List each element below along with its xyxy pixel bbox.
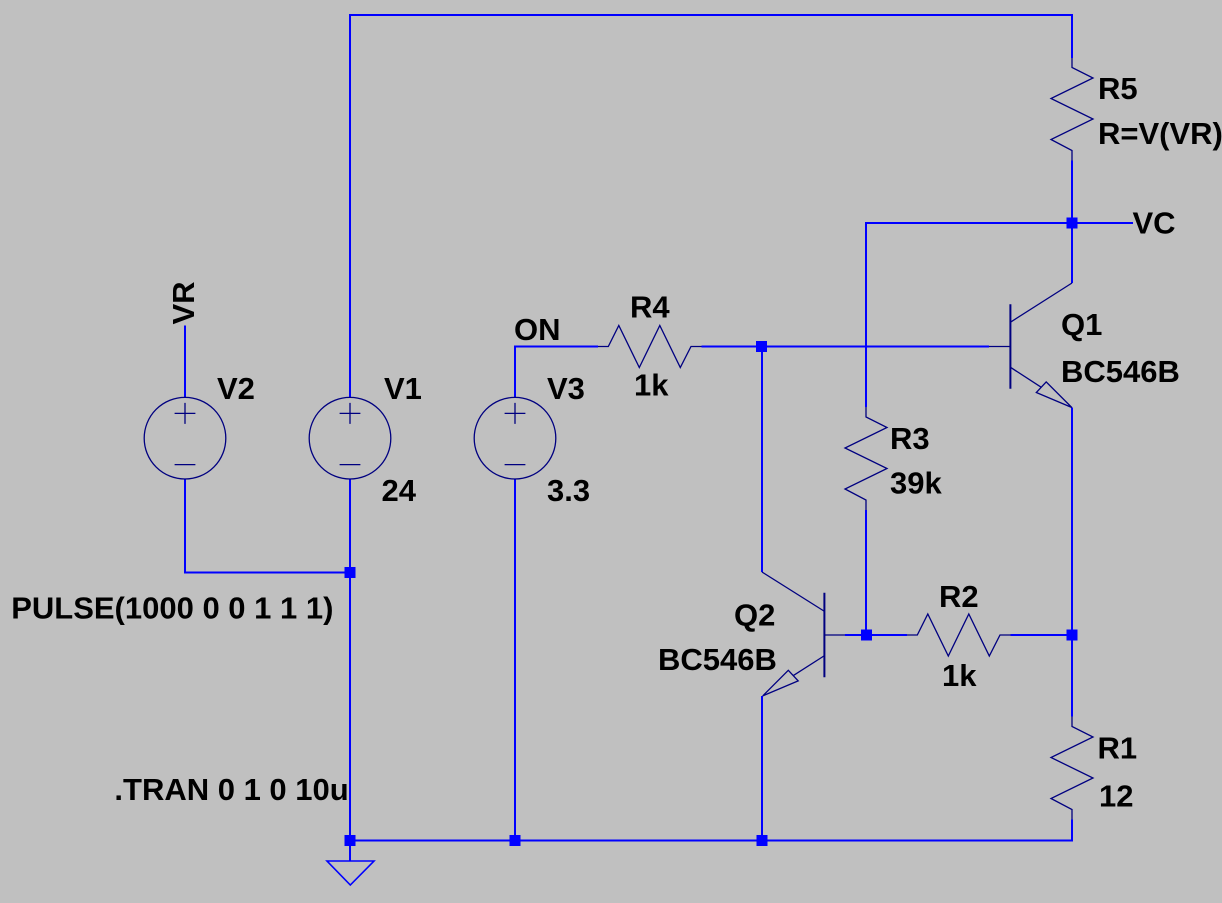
svg-text:R3: R3: [890, 421, 930, 456]
voltage source V2: [144, 397, 226, 479]
svg-text:.TRAN 0 1 0 10u: .TRAN 0 1 0 10u: [114, 772, 348, 807]
node ground junction: [345, 835, 356, 846]
wire V1 top: [349, 14, 351, 398]
wire R4 to node: [702, 346, 762, 348]
svg-text:V1: V1: [384, 371, 422, 406]
node VC junction: [1067, 218, 1078, 229]
wire R3 top drop: [865, 222, 867, 407]
voltage source V3: [474, 397, 556, 479]
svg-text:V3: V3: [547, 371, 585, 406]
resistor R2: [907, 614, 1011, 656]
wire ON node to R4: [515, 346, 598, 348]
svg-text:R1: R1: [1098, 731, 1138, 766]
svg-text:R=V(VR): R=V(VR): [1098, 116, 1222, 151]
resistor R4: [598, 326, 702, 368]
wire V2 bottom: [185, 479, 350, 573]
wire VR flag stem: [184, 326, 186, 398]
wire VC node to Q1 collector: [1071, 223, 1073, 283]
wire Q2 base to node: [845, 634, 907, 636]
wire V1 bottom column: [349, 479, 351, 841]
svg-text:24: 24: [382, 473, 417, 508]
wire V3 top: [514, 346, 516, 398]
wire ground rail: [350, 820, 1072, 841]
node R2/emitter junction: [1067, 630, 1078, 641]
wire R5 top lead: [1071, 14, 1073, 58]
svg-text:VC: VC: [1133, 206, 1176, 241]
svg-text:1k: 1k: [634, 368, 669, 403]
node Q2 emitter ground junction: [757, 835, 768, 846]
svg-text:3.3: 3.3: [547, 473, 590, 508]
node Q2 base junction: [861, 630, 872, 641]
node V2/V1 junction: [345, 567, 356, 578]
wire Q1 emitter column: [1071, 408, 1073, 717]
svg-text:V2: V2: [217, 371, 255, 406]
svg-text:1k: 1k: [942, 658, 977, 693]
svg-text:Q2: Q2: [734, 598, 775, 633]
wire V3 bottom: [514, 479, 516, 841]
transistor Q2: [762, 572, 845, 696]
node R4/Q2 junction: [756, 341, 767, 352]
svg-text:BC546B: BC546B: [658, 642, 777, 677]
svg-text:Q1: Q1: [1061, 307, 1102, 342]
wire Q2 emitter down: [761, 696, 763, 841]
wire R5 bottom to VC node: [1071, 161, 1073, 224]
wire node to Q1 base: [762, 346, 990, 348]
svg-text:R4: R4: [630, 290, 670, 325]
wire R2 right lead: [1011, 634, 1073, 636]
svg-text:39k: 39k: [890, 466, 942, 501]
svg-text:BC546B: BC546B: [1061, 354, 1180, 389]
voltage source V1: [309, 397, 391, 479]
svg-text:PULSE(1000 0 0 1 1 1): PULSE(1000 0 0 1 1 1): [11, 591, 333, 626]
wire Q2 collector column: [761, 347, 763, 573]
ground: [327, 861, 374, 885]
node V3 ground junction: [510, 835, 521, 846]
transistor Q1: [989, 283, 1072, 408]
resistor R1: [1051, 717, 1093, 820]
wire R3 bottom to Q2 base node: [865, 510, 867, 635]
svg-text:12: 12: [1099, 779, 1133, 814]
resistor R5: [1051, 58, 1093, 161]
svg-text:R5: R5: [1098, 71, 1138, 106]
wire ground stub: [349, 841, 351, 862]
resistor R3: [845, 407, 887, 510]
svg-text:R2: R2: [939, 579, 979, 614]
svg-text:ON: ON: [514, 312, 561, 347]
svg-text:VR: VR: [166, 281, 201, 324]
wire top rail V+: [350, 14, 1072, 16]
wire VC horizontal: [866, 222, 1133, 224]
